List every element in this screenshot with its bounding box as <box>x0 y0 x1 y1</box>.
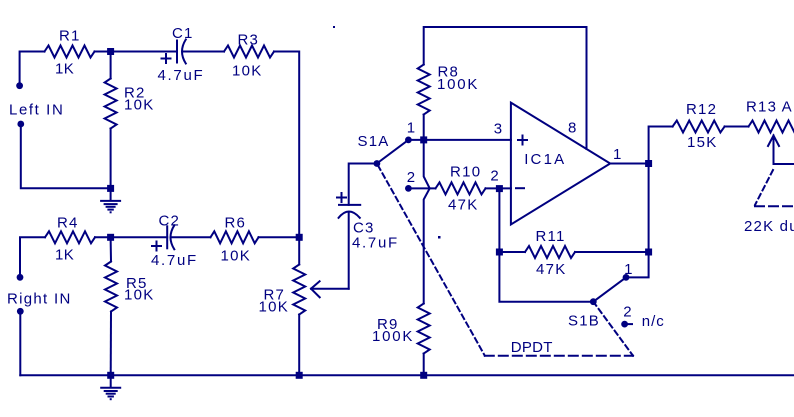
node B junction <box>107 234 114 241</box>
label R1 <box>59 27 81 44</box>
label R10 <box>450 163 481 180</box>
switch S1B blade <box>593 277 626 301</box>
label R10 value 47K <box>448 197 479 214</box>
node summing junction <box>296 234 303 241</box>
svg-text:R11: R11 <box>536 228 566 245</box>
label pin 8 <box>568 119 576 136</box>
wire summing node to R7 <box>298 237 300 264</box>
node stray dot middle <box>438 236 441 239</box>
resistor R1 <box>45 46 95 58</box>
switch S1B contact 1 <box>623 274 630 281</box>
capacitor C1 plus plate <box>176 41 178 63</box>
potentiometer R7 body <box>293 265 305 315</box>
wire R11 right lead <box>575 251 649 253</box>
wire R11 node to S1B contact 1 <box>626 252 649 277</box>
label S1A pin 2 <box>407 169 415 186</box>
svg-text:4.7uF: 4.7uF <box>352 234 399 251</box>
svg-text:C2: C2 <box>159 212 181 229</box>
svg-text:Right IN: Right IN <box>7 291 72 308</box>
svg-text:4.7uF: 4.7uF <box>158 67 205 84</box>
label R5 value 10K <box>124 287 155 304</box>
node Left IN ground terminal <box>17 121 24 128</box>
node R11 left junction <box>496 249 503 256</box>
label C2 <box>159 212 181 229</box>
label S1B <box>568 313 600 330</box>
capacitor C1 plus sign <box>162 54 171 63</box>
wire R2 to ground <box>110 129 112 189</box>
switch S1A dashed throw <box>378 166 485 356</box>
resistor R9 <box>418 304 430 354</box>
label R13 value 22K dual <box>744 218 794 235</box>
node left ground junction <box>107 185 114 192</box>
label R13 A <box>746 99 793 116</box>
wire R10 to pin 2 <box>486 187 511 189</box>
wire S1A-1 to pin 3 <box>408 139 511 141</box>
label R8 value 100K <box>437 76 479 93</box>
wire feedback top <box>424 27 587 149</box>
svg-text:R10: R10 <box>450 163 481 180</box>
label Right IN <box>7 291 72 308</box>
label R9 value 100K <box>372 328 414 345</box>
op-amp plus input sign <box>518 136 527 145</box>
label S1B pin 1 <box>624 261 632 278</box>
switch S1A contact 1 <box>405 137 412 144</box>
svg-text:4.7uF: 4.7uF <box>151 252 198 269</box>
wire R8 to pin3 node <box>423 115 425 140</box>
label pin 3 <box>494 120 502 137</box>
capacitor C2 curved plate <box>171 225 175 249</box>
svg-text:S1A: S1A <box>358 133 390 150</box>
wire Left IN ground lead <box>21 124 107 188</box>
svg-text:1: 1 <box>407 120 415 137</box>
resistor R4 <box>45 231 95 243</box>
svg-text:C1: C1 <box>172 25 194 42</box>
resistor R11 <box>525 246 575 258</box>
resistor R5 <box>105 262 117 312</box>
label R12 <box>686 101 717 118</box>
wire R5 to rail <box>110 312 112 376</box>
svg-text:10K: 10K <box>124 287 155 304</box>
wire C1 to R3 <box>184 51 225 53</box>
svg-text:R6: R6 <box>225 215 247 232</box>
label R3 value 10K <box>232 62 263 79</box>
svg-text:S1B: S1B <box>568 313 600 330</box>
ground left channel <box>101 188 120 213</box>
svg-text:R13 A: R13 A <box>746 99 793 116</box>
wire R7 to rail <box>298 315 300 376</box>
label n/c <box>642 313 665 330</box>
capacitor C3 plus plate <box>339 204 360 206</box>
potentiometer R13 gang dashed link <box>755 170 794 206</box>
svg-text:10K: 10K <box>232 62 263 79</box>
node A junction <box>107 48 114 55</box>
wire R6 to summing node <box>259 236 300 238</box>
label R4 <box>57 215 79 232</box>
label IC1A <box>524 151 566 168</box>
resistor R10 <box>436 182 486 194</box>
resistor R12 <box>673 121 725 133</box>
svg-text:R4: R4 <box>57 215 79 232</box>
label S1A pin 1 <box>407 120 415 137</box>
label R7 <box>264 287 286 304</box>
svg-text:15K: 15K <box>687 134 718 151</box>
label S1B pin 2 <box>623 303 631 320</box>
wire node B to R5 <box>110 237 112 261</box>
capacitor C1 curved plate <box>182 40 186 64</box>
svg-text:47K: 47K <box>448 197 479 214</box>
label C3 value 4.7uF <box>352 234 399 251</box>
label pin 2 <box>490 167 498 184</box>
label R2 <box>124 85 146 102</box>
resistor R2 <box>105 79 117 129</box>
wire ground rail <box>20 374 794 376</box>
svg-text:DPDT: DPDT <box>511 339 553 356</box>
label R11 value 47K <box>536 261 567 278</box>
svg-text:10K: 10K <box>259 298 290 315</box>
label C2 value 4.7uF <box>151 252 198 269</box>
switch S1B pole <box>590 298 597 305</box>
resistor R6 <box>211 231 259 243</box>
wire pin2 node down to R11 <box>498 189 500 252</box>
node pin2 junction <box>496 185 503 192</box>
label R6 value 10K <box>221 248 252 265</box>
wire pin3 node down with hop <box>424 140 430 304</box>
svg-text:22K du: 22K du <box>744 218 794 235</box>
label Left IN <box>9 102 64 119</box>
label R8 <box>438 64 460 81</box>
resistor R8 <box>418 65 430 115</box>
label R11 <box>536 228 566 245</box>
wire wiper to C3 <box>348 213 350 289</box>
label R1 value 1K <box>55 60 74 77</box>
capacitor C2 plus sign <box>152 242 161 251</box>
wire Right IN top lead <box>20 237 45 277</box>
svg-text:10K: 10K <box>221 248 252 265</box>
capacitor C2 plus plate <box>166 226 168 248</box>
svg-text:R1: R1 <box>59 27 81 44</box>
svg-text:47K: 47K <box>536 261 567 278</box>
node pin3 junction <box>420 136 427 143</box>
label R5 <box>126 275 148 292</box>
svg-text:100K: 100K <box>372 328 414 345</box>
label R12 value 15K <box>687 134 718 151</box>
switch DPDT dashed coupling <box>485 355 633 357</box>
ground bottom rail <box>101 375 120 400</box>
wire output down to R11 <box>648 164 650 253</box>
label DPDT <box>511 339 553 356</box>
svg-text:n/c: n/c <box>642 313 665 330</box>
wire R9 to rail <box>423 354 425 376</box>
capacitor C3 curved plate <box>339 212 360 218</box>
wire Right IN ground lead <box>19 311 21 375</box>
potentiometer R13 wiper arrow <box>768 136 794 165</box>
label R6 <box>225 215 247 232</box>
wire op-amp output <box>610 163 648 165</box>
label C1 value 4.7uF <box>158 67 205 84</box>
label pin 1 output <box>613 146 621 163</box>
wire R11 left lead <box>499 251 525 253</box>
op-amp minus input sign <box>516 187 524 189</box>
svg-text:Left IN: Left IN <box>9 102 64 119</box>
capacitor C3 plus sign <box>337 193 346 202</box>
label S1A <box>358 133 390 150</box>
wire R12 to R13 <box>725 126 749 128</box>
label R3 <box>238 32 260 49</box>
svg-text:8: 8 <box>568 119 576 136</box>
op-amp U1 triangle <box>511 103 610 225</box>
svg-text:IC1A: IC1A <box>524 151 566 168</box>
wire S1A-2 to R10 <box>408 187 435 189</box>
label R2 value 10K <box>124 97 155 114</box>
svg-text:3: 3 <box>494 120 502 137</box>
wire output up to R12 <box>649 127 673 164</box>
svg-text:1: 1 <box>613 146 621 163</box>
node R7 rail junction <box>296 372 303 379</box>
wire node A to R2 <box>110 52 112 79</box>
label R9 <box>377 316 399 333</box>
svg-text:2: 2 <box>490 167 498 184</box>
svg-text:100K: 100K <box>437 76 479 93</box>
node R9 rail junction <box>420 372 427 379</box>
svg-text:2: 2 <box>407 169 415 186</box>
label R4 value 1K <box>55 247 74 264</box>
potentiometer R7 wiper arrow <box>311 281 349 297</box>
wire R3 to summing node <box>274 52 299 238</box>
node R11 right junction <box>645 249 652 256</box>
potentiometer R13 body <box>749 121 794 133</box>
wire R4 to node B <box>95 236 167 238</box>
svg-text:2: 2 <box>623 303 631 320</box>
node Right IN ground terminal <box>17 308 24 315</box>
node rail R5 junction <box>107 372 114 379</box>
node Right IN hot terminal <box>17 274 24 281</box>
svg-text:R3: R3 <box>238 32 260 49</box>
resistor R3 <box>224 46 274 58</box>
svg-text:R12: R12 <box>686 101 717 118</box>
wire R1 to node A <box>95 51 178 53</box>
wire C2 to R6 <box>172 236 210 238</box>
label R7 value 10K <box>259 298 290 315</box>
switch S1A blade <box>377 140 409 164</box>
switch S1B dashed throw <box>593 302 633 356</box>
switch S1B contact 2 <box>621 321 632 328</box>
wire Left IN top lead <box>20 52 45 86</box>
svg-text:1K: 1K <box>55 60 74 77</box>
svg-text:1: 1 <box>624 261 632 278</box>
label C3 <box>353 219 375 236</box>
node output junction <box>645 160 652 167</box>
svg-text:1K: 1K <box>55 247 74 264</box>
node stray dot top <box>333 26 335 28</box>
switch S1A pole <box>374 160 381 167</box>
wire C3 to S1A pole <box>349 164 377 205</box>
svg-text:10K: 10K <box>124 97 155 114</box>
switch S1A contact 2 <box>405 185 412 192</box>
wire R11 left node to S1B pole <box>499 252 593 302</box>
label C1 <box>172 25 194 42</box>
node Left IN hot terminal <box>16 82 23 89</box>
